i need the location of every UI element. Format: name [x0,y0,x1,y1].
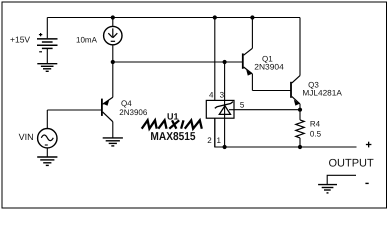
svg-text:0.5: 0.5 [310,129,322,138]
svg-text:2N3906: 2N3906 [119,108,148,117]
svg-text:+15V: +15V [10,35,30,45]
junction dot top rail / current source [111,15,115,19]
svg-text:2N3904: 2N3904 [254,63,284,72]
ground (Q4 collector) [103,138,123,146]
svg-text:R4: R4 [310,119,321,128]
wire U1 pin5 to Q3 emitter / R4 [234,109,300,111]
wire VIN to Q4 base [47,109,102,111]
ground (output) [318,185,337,193]
MAXIM logo [142,120,202,128]
junction dot second rail / U1 pin 3 [223,60,227,64]
junction dot top rail / U1 pin 4 [213,15,217,19]
transistor Q4 2N3906 (PNP) [102,62,113,138]
pin 3 wire [224,62,226,100]
junction dot Q3 emitter / pin5 / R4 [298,108,302,112]
label + output terminal [366,142,372,148]
AC source VIN [38,110,57,157]
battery V1 +15V [37,18,58,64]
resistor R4 [296,110,304,147]
svg-text:VIN: VIN [19,132,34,142]
svg-text:10mA: 10mA [76,36,98,45]
transistor Q1 2N3904 (NPN) [243,18,253,91]
internal zener diode [224,100,226,118]
wire bottom rail (U1 pins to output +) [215,118,357,147]
pin 2 wire [214,118,216,147]
svg-text:2: 2 [207,136,212,145]
wire Q1 emitter to Q3 base [252,90,291,92]
ground (battery) [37,64,57,72]
wire output minus to ground [327,175,356,184]
junction dot top rail / Q1 collector [250,15,254,19]
svg-text:1: 1 [217,136,222,145]
svg-text:MAX8515: MAX8515 [150,131,196,143]
svg-text:3: 3 [220,91,225,100]
wire right rail from top rail down to Q3 collector [299,18,301,76]
wire +15V top rail [47,17,300,19]
junction dot second rail / Q4 emitter [111,60,115,64]
current source I1 10mA [104,18,122,63]
pin 4 wire [214,18,216,101]
transistor Q3 MJL4281A (NPN) [291,76,300,110]
wire second rail (current source output to Q1 base) [113,61,243,63]
op-amp U1 MAX8515 shunt regulator box [206,18,234,148]
pin 1 wire [224,118,226,147]
svg-text:U1: U1 [167,111,179,121]
svg-text:OUTPUT: OUTPUT [329,158,375,170]
svg-text:MJL4281A: MJL4281A [302,89,342,98]
svg-text:Q4: Q4 [121,99,132,108]
junction dot bottom rail / R4 [298,145,302,149]
svg-text:4: 4 [209,91,214,100]
svg-text:5: 5 [240,101,245,110]
label - output terminal [365,182,368,184]
junction dot bottom rail / pin 1 [223,145,227,149]
ground (VIN) [37,157,57,165]
